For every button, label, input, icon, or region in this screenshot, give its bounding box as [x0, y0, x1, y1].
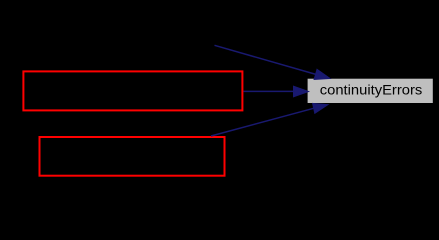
edge A arrowhead [314, 69, 330, 79]
svg-text:continuityErrors: continuityErrors [320, 83, 423, 99]
edge B: wire from caller1 to continuityErrors [244, 86, 309, 97]
edge B arrowhead [294, 86, 309, 97]
edge A: wire from hidden top node to continuityErrors [215, 45, 331, 79]
node caller2 (red-bordered box, label hidden black-on-black) [40, 137, 225, 176]
edge C arrowhead [313, 103, 328, 113]
node continuityErrors (gray filled box) [308, 79, 433, 103]
edge C: wire from caller2 to continuityErrors [211, 103, 328, 136]
node caller1 (red-bordered box, label hidden black-on-black) [23, 71, 242, 110]
